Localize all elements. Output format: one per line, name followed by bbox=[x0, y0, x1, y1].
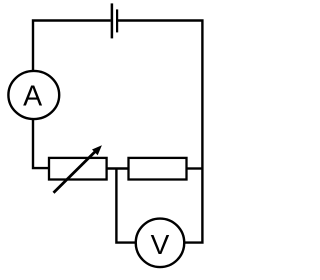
battery cell B1 short plate bbox=[116, 9, 118, 32]
resistor R2 body bbox=[129, 158, 187, 180]
wire lower left rail into rheostat bbox=[33, 119, 49, 168]
battery cell B1 long plate bbox=[111, 3, 114, 38]
wire top-right segment, right rail and voltmeter right lead bbox=[117, 21, 202, 243]
svg-text:V: V bbox=[151, 229, 170, 260]
wire voltmeter tap and left lead bbox=[116, 169, 136, 243]
ammeter U1 bbox=[8, 71, 59, 119]
svg-text:A: A bbox=[23, 81, 42, 113]
wire top-left segment and upper left rail bbox=[33, 21, 111, 71]
rheostat R1 arrow bbox=[54, 145, 102, 192]
wire lead between rheostat and resistor bbox=[107, 167, 129, 169]
voltmeter U2 bbox=[136, 219, 185, 267]
rheostat R1 body bbox=[49, 158, 107, 180]
wire lead from resistor to right rail bbox=[187, 167, 203, 169]
